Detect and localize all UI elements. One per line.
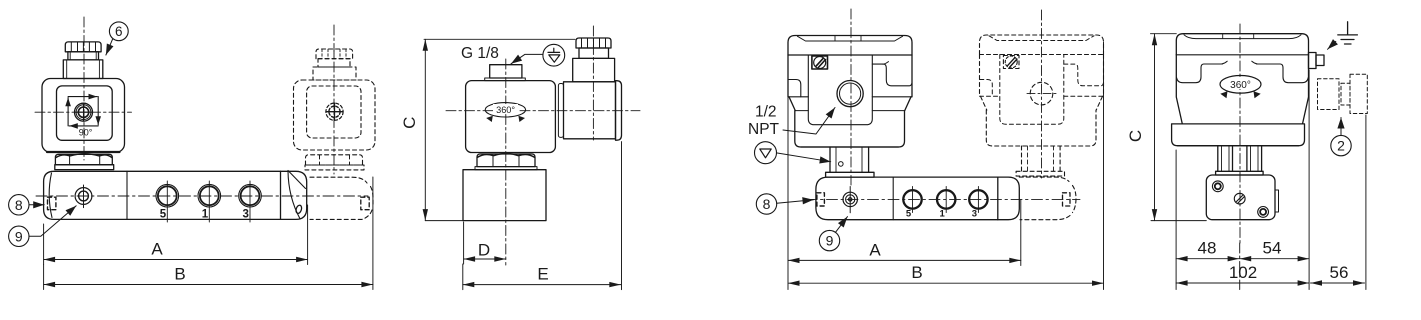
- svg-text:5: 5: [160, 209, 167, 221]
- circled nabla: [755, 142, 777, 164]
- svg-text:9: 9: [826, 233, 834, 249]
- svg-text:B: B: [911, 263, 922, 282]
- top port cap: [490, 65, 522, 78]
- screw box: [812, 56, 828, 69]
- dashed port rect right: [1063, 193, 1071, 206]
- dashed left contour: [980, 80, 993, 97]
- base band: [1172, 124, 1305, 146]
- wing top lines: [788, 96, 912, 98]
- NPT leader: [783, 108, 835, 135]
- svg-text:54: 54: [1263, 239, 1282, 258]
- dashed seam: [980, 54, 1104, 56]
- manifold outline: [816, 177, 998, 220]
- stem flange: [826, 172, 874, 177]
- svg-text:1: 1: [202, 209, 209, 221]
- circled 8: [756, 194, 776, 214]
- svg-text:360°: 360°: [496, 105, 515, 115]
- lid inner line: [798, 36, 903, 41]
- D extension left: [463, 222, 465, 264]
- svg-text:8: 8: [763, 196, 771, 212]
- extension right: [1308, 70, 1310, 290]
- dashed port rect left: [817, 193, 825, 206]
- nut facet arcs: [56, 154, 112, 158]
- svg-text:G 1/8: G 1/8: [461, 45, 499, 62]
- extension far right: [1365, 115, 1367, 290]
- end cap diagonal: [288, 171, 306, 189]
- dashed coil outer: [294, 80, 376, 150]
- circled 9: [9, 226, 29, 246]
- connector stub: [1309, 53, 1317, 69]
- leader 9: [836, 217, 848, 233]
- coil body side: [466, 81, 556, 153]
- screw bottom-right: [1258, 207, 1269, 218]
- screw top-left: [1212, 181, 1223, 192]
- leader from earth to port: [511, 54, 543, 63]
- dimension 48: [1176, 258, 1239, 260]
- dashed cap mid: [318, 59, 350, 67]
- B extension left lower: [43, 265, 45, 290]
- base band: [795, 111, 905, 147]
- dashed body end: [310, 177, 367, 183]
- stem flange: [1216, 171, 1264, 175]
- coil inner face: [57, 86, 113, 140]
- circled 6: [109, 22, 128, 41]
- svg-text:9: 9: [15, 228, 23, 244]
- hex nut: [55, 154, 112, 164]
- earth leader: [1328, 41, 1336, 49]
- port 3: [239, 184, 262, 207]
- 360 ellipse: [485, 103, 525, 117]
- dashed NPT circle: [1030, 82, 1053, 105]
- coil vertical centerline: [505, 59, 507, 265]
- A extension left: [43, 224, 45, 265]
- circled 2: [1331, 135, 1351, 155]
- leader 2: [1340, 118, 1342, 135]
- circled 8: [9, 195, 29, 215]
- dashed stem: [1022, 146, 1061, 171]
- svg-text:A: A: [151, 240, 163, 259]
- nut facets: [70, 155, 100, 165]
- gland mid: [579, 48, 609, 58]
- E extension left: [462, 264, 464, 290]
- side taper left: [789, 97, 795, 111]
- dashed base band: [986, 110, 1096, 146]
- dashed wing tops: [980, 95, 1104, 97]
- svg-text:6: 6: [115, 24, 123, 39]
- seam: [788, 54, 912, 56]
- svg-text:2: 2: [1337, 138, 1345, 154]
- dimension A: [44, 259, 308, 261]
- 360 arrows: [486, 116, 493, 122]
- base bottom: [801, 146, 899, 148]
- right molded shelf: [872, 64, 912, 86]
- washer: [55, 165, 114, 170]
- screw circles: [75, 103, 93, 121]
- dimension B: [44, 284, 373, 286]
- banjo bolt: [843, 192, 857, 206]
- coil bottom heavy edge: [47, 151, 120, 153]
- gland base: [573, 58, 615, 81]
- top port flange: [485, 78, 526, 81]
- manifold left inner curve: [49, 173, 52, 218]
- dashed hex nut: [306, 155, 363, 165]
- enclosure lid: [788, 36, 912, 56]
- dimension 54: [1240, 258, 1309, 260]
- connector vertical centerline: [592, 26, 594, 140]
- nabla leader: [777, 153, 831, 162]
- centerline vertical solid coil: [83, 17, 85, 160]
- A extension right: [307, 205, 309, 265]
- knurl lines: [71, 42, 95, 52]
- cap mid ticks: [70, 52, 96, 60]
- terminal strip: [558, 84, 563, 138]
- svg-text:D: D: [478, 241, 490, 260]
- dimension A: [788, 259, 1021, 261]
- dashed flange: [1016, 171, 1064, 176]
- B extension right: [1103, 42, 1105, 290]
- left shoulder cutout: [1177, 64, 1223, 83]
- lid ticks: [835, 36, 861, 41]
- dashed screw box: [1003, 56, 1019, 69]
- dashed lid: [980, 35, 1104, 55]
- svg-text:56: 56: [1330, 263, 1349, 282]
- lid ticks: [1223, 34, 1254, 39]
- screw cross: [76, 104, 92, 120]
- dashed screw: [326, 103, 343, 120]
- center slotted screw: [1234, 193, 1245, 204]
- leader 9: [29, 206, 76, 237]
- dashed connector assembly: [1318, 74, 1368, 113]
- U section verticals: [808, 55, 872, 125]
- left molded contour: [788, 80, 801, 97]
- big NPT circle: [837, 81, 863, 107]
- extension left: [1175, 150, 1177, 290]
- C dimension: [424, 38, 575, 40]
- svg-text:B: B: [174, 265, 185, 284]
- upper body sides: [788, 55, 912, 97]
- svg-text:3: 3: [972, 209, 977, 220]
- A/B extension left: [787, 97, 789, 290]
- lid band: [1176, 34, 1308, 55]
- end cap crescent: [288, 171, 300, 219]
- manifold separator line: [126, 171, 128, 219]
- rotation square with arrows: [68, 96, 97, 98]
- C dimension: [1151, 33, 1177, 35]
- screw box circle: [814, 57, 826, 69]
- E extension right: [621, 142, 623, 290]
- svg-text:5: 5: [906, 209, 912, 220]
- svg-text:90°: 90°: [79, 128, 93, 138]
- dashed manifold extension: [1019, 177, 1069, 181]
- dashed tapers: [981, 96, 1103, 110]
- manifold centerline: [806, 198, 1080, 200]
- svg-text:8: 8: [15, 197, 23, 213]
- cap base: [63, 60, 103, 79]
- manifold centerline: [36, 195, 368, 197]
- end cap hole: [295, 205, 303, 215]
- svg-text:NPT: NPT: [748, 121, 780, 138]
- coil outer body: [42, 79, 125, 153]
- 360 ellipse: [1220, 76, 1261, 94]
- connector housing: [564, 82, 616, 139]
- end cap: [998, 177, 1020, 220]
- circled 9: [819, 230, 839, 250]
- svg-text:C: C: [1126, 130, 1145, 142]
- port 5: [156, 184, 179, 207]
- bottom block: [1206, 175, 1275, 220]
- knurled cap: [65, 42, 101, 52]
- stem columns: [1218, 146, 1262, 172]
- centerline horizontal coil: [35, 111, 132, 113]
- extension center: [1239, 243, 1241, 290]
- dashed centerline: [1041, 10, 1043, 178]
- dashed U verticals: [1000, 55, 1064, 125]
- centerline: [1239, 24, 1241, 243]
- leader 8: [29, 204, 44, 206]
- hex nut side: [477, 154, 535, 167]
- cap mid piece: [68, 52, 99, 60]
- dimension E: [463, 284, 621, 286]
- dimension B: [788, 282, 1104, 284]
- manifold separator: [892, 177, 894, 220]
- svg-text:1: 1: [940, 209, 946, 220]
- svg-text:E: E: [537, 265, 548, 284]
- dashed sides: [980, 55, 1104, 97]
- dashed centerline: [333, 25, 335, 174]
- seam: [1176, 54, 1308, 56]
- dimension 102: [1176, 282, 1309, 284]
- svg-text:3: 3: [242, 209, 248, 221]
- base bottom: [1178, 145, 1299, 147]
- enclosure centerline: [850, 9, 852, 185]
- earth symbol circle: [543, 44, 565, 66]
- dashed coil inner: [307, 86, 361, 138]
- horizontal centerline: [446, 110, 640, 112]
- washer side: [475, 167, 537, 170]
- base top edges: [795, 110, 904, 112]
- svg-text:360°: 360°: [1230, 80, 1251, 91]
- A extension right: [1020, 200, 1022, 266]
- dashed port rect right end: [361, 197, 369, 210]
- dashed right shelf: [1064, 64, 1104, 86]
- dimension 56: [1311, 282, 1365, 284]
- gland knurl: [576, 38, 611, 48]
- leader 6: [106, 39, 113, 55]
- port 1: [937, 190, 955, 208]
- port 5: [903, 190, 921, 208]
- B extension right: [372, 177, 374, 290]
- dashed knurled cap: [316, 49, 353, 59]
- upper body sides: [1176, 55, 1308, 124]
- svg-text:102: 102: [1229, 263, 1257, 282]
- earth symbol: [1338, 22, 1358, 44]
- banjo fitting: [75, 188, 92, 205]
- svg-text:1/2: 1/2: [755, 104, 777, 121]
- dashed washer: [305, 165, 364, 170]
- svg-text:C: C: [400, 117, 419, 129]
- end cap outline: [281, 171, 307, 219]
- cap base inner lines: [67, 60, 100, 79]
- manifold body outline: [44, 171, 281, 219]
- dashed port rect left end: [48, 197, 56, 210]
- port 1: [198, 184, 221, 207]
- side taper right: [905, 97, 911, 111]
- dimension D: [464, 258, 506, 260]
- block tab: [1275, 190, 1279, 212]
- svg-text:A: A: [869, 240, 881, 259]
- dashed knurl lines: [322, 49, 346, 58]
- svg-text:48: 48: [1198, 239, 1217, 258]
- stem hole: [839, 162, 844, 167]
- valve body side: [463, 170, 546, 221]
- lid inner line: [1184, 35, 1301, 39]
- leader 8: [777, 200, 814, 204]
- dashed cap base: [313, 67, 356, 80]
- port 3: [969, 190, 987, 208]
- right shoulder cutout: [1257, 64, 1309, 83]
- connector end flange: [616, 81, 622, 141]
- stem: [830, 147, 869, 172]
